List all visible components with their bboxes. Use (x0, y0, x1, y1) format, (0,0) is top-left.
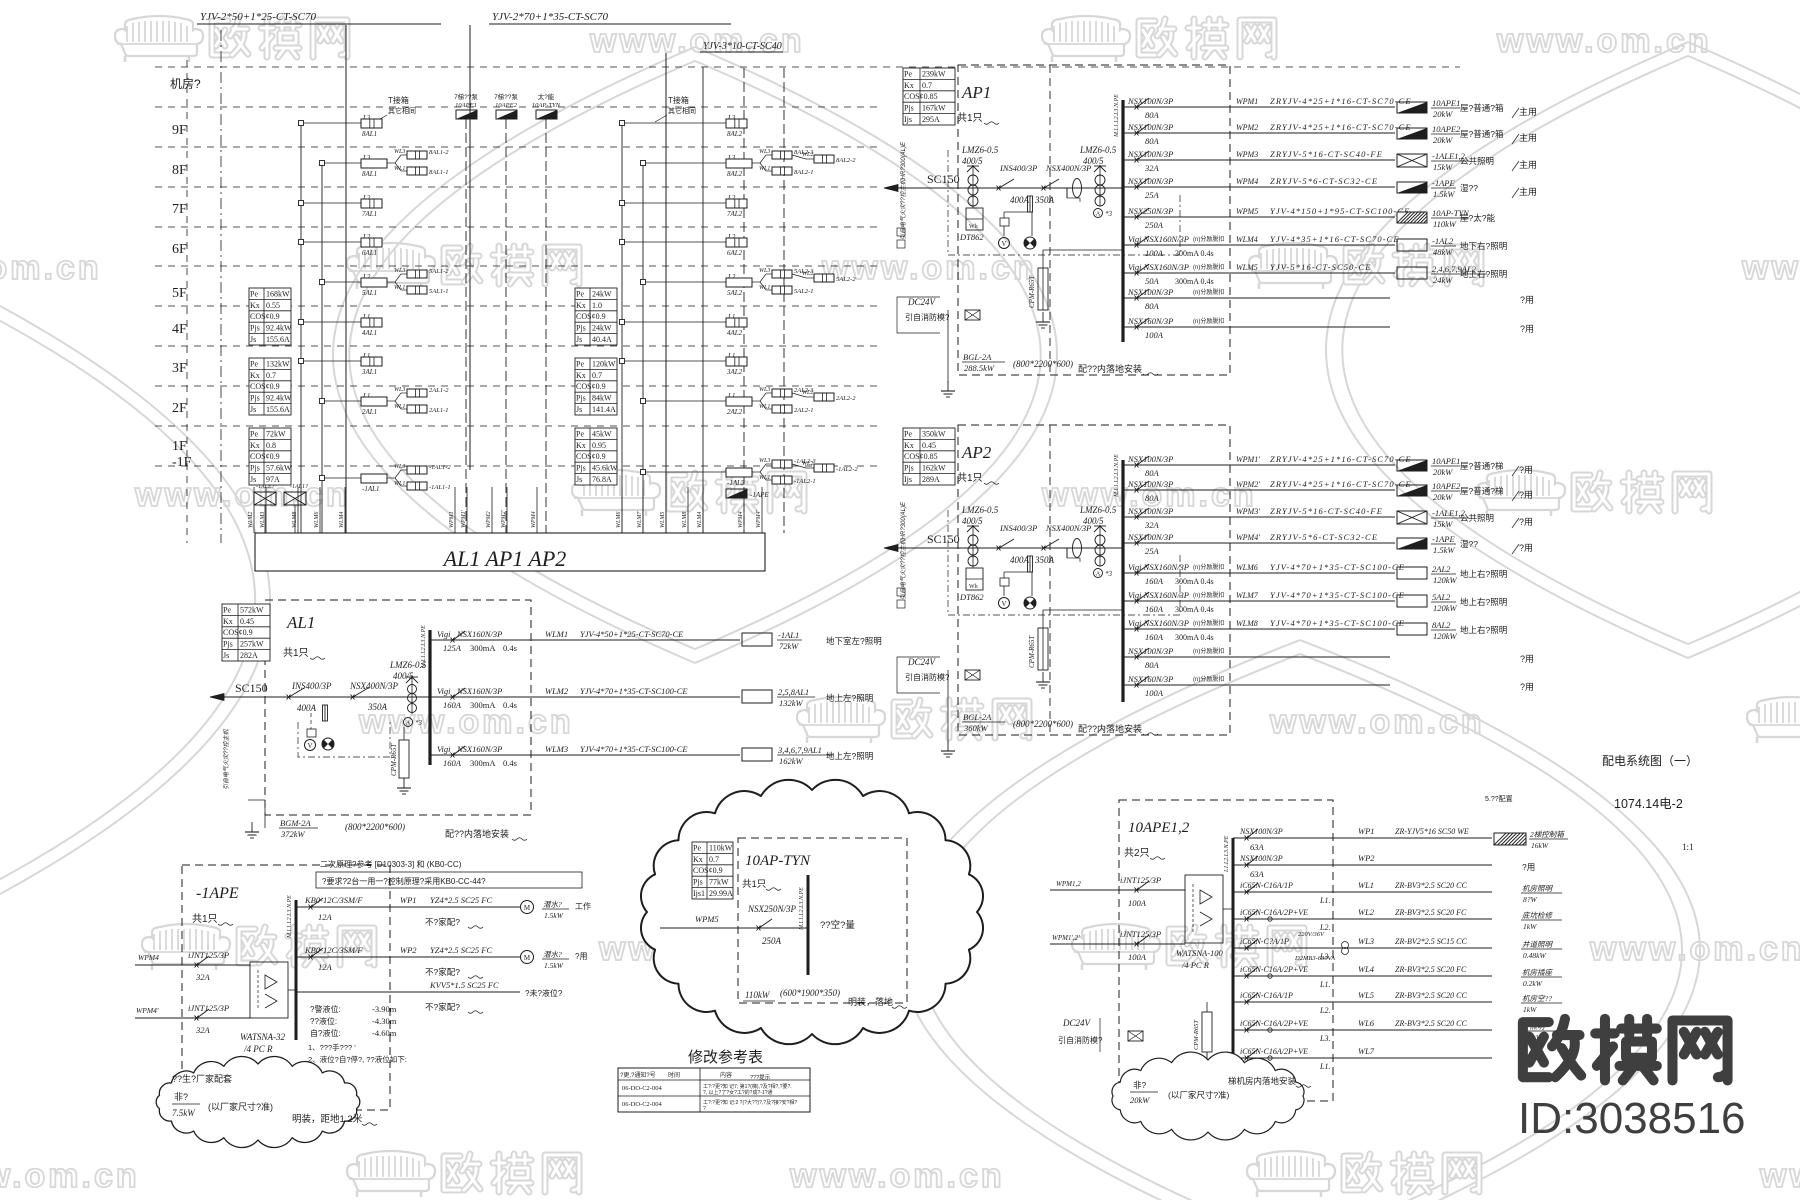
svg-text:(n)分励脱扣: (n)分励脱扣 (1193, 591, 1224, 599)
svg-text:NSX100N/3P: NSX100N/3P (1127, 646, 1173, 656)
svg-text:M.L1.L2.L3.N.PE: M.L1.L2.L3.N.PE (1114, 454, 1120, 498)
svg-text:257kW: 257kW (240, 640, 264, 649)
svg-text:?用: ?用 (1520, 324, 1534, 334)
transfer switch WATSNA-100/4 PC R (1176, 875, 1233, 970)
svg-text:Js: Js (223, 651, 229, 660)
panel 10APE1,2 title (1124, 820, 1190, 859)
svg-text:AP1: AP1 (961, 83, 991, 102)
svg-text:10APE1: 10APE1 (1432, 456, 1460, 466)
floor tap 5AL1 with sub-feeds (320, 268, 450, 297)
svg-text:iJNT125/3P: iJNT125/3P (188, 1003, 229, 1013)
svg-text:BGL-2A: BGL-2A (963, 712, 992, 722)
svg-text:45kW: 45kW (592, 429, 612, 438)
ammeters A*3 (1094, 569, 1113, 579)
svg-text:(n)分励脱扣: (n)分励脱扣 (1193, 235, 1224, 243)
svg-text:共1只: 共1只 (742, 879, 766, 890)
svg-text:350A: 350A (1034, 555, 1055, 565)
svg-text:25A: 25A (1145, 546, 1160, 556)
svg-text:5AL2-2: 5AL2-2 (836, 276, 856, 283)
svg-text:77kW: 77kW (709, 878, 729, 887)
svg-text:Pjs: Pjs (576, 324, 586, 333)
roof unit box 10APE1 (454, 92, 478, 119)
svg-text:ZR-BV3*2.5 SC20 FC: ZR-BV3*2.5 SC20 FC (1395, 908, 1467, 917)
svg-text:不?家配?: 不?家配? (425, 917, 460, 927)
svg-text:8AL1-2: 8AL1-2 (429, 149, 449, 156)
CT LMZ6-0.5 400/5 (bus side) (1079, 145, 1117, 206)
svg-text:DT862: DT862 (959, 592, 984, 602)
panel AP2 main bus (1114, 454, 1123, 702)
load label 底坑检修 (1521, 911, 1562, 931)
svg-text:YJV-2*50+1*25-CT-SC70: YJV-2*50+1*25-CT-SC70 (200, 11, 316, 23)
svg-text:COS¢0.85: COS¢0.85 (904, 452, 938, 461)
svg-text:井道照明: 井道照明 (1522, 940, 1553, 949)
roof unit box 10APE2 (494, 92, 518, 119)
svg-text:0.55: 0.55 (266, 301, 280, 310)
svg-text:32A: 32A (1144, 163, 1160, 173)
svg-text:WATSNA-32: WATSNA-32 (240, 1032, 286, 1042)
svg-text:WPM5: WPM5 (695, 914, 719, 924)
svg-text:YZ4*2.5 SC25 FC: YZ4*2.5 SC25 FC (430, 945, 492, 955)
svg-text:YJV-4*70+1*35-CT-SC100-CE: YJV-4*70+1*35-CT-SC100-CE (1270, 618, 1405, 628)
svg-text:M.L1.L2.L3.N.PE: M.L1.L2.L3.N.PE (799, 887, 805, 931)
svg-text:二次原理?参考 [D10303-3] 和 (KB0-CC): 二次原理?参考 [D10303-3] 和 (KB0-CC) (320, 859, 462, 869)
junction box label T接箱 (375, 95, 416, 122)
svg-text:Kx: Kx (250, 301, 260, 310)
svg-text:5AL2: 5AL2 (1432, 592, 1451, 602)
svg-text:400/5: 400/5 (962, 156, 983, 166)
svg-text:WL1: WL1 (394, 481, 405, 487)
feeder WPM2 NSX100N/3P 80A (1123, 122, 1412, 146)
svg-text:160A: 160A (1145, 604, 1164, 614)
meter cluster AL1 (298, 713, 390, 757)
floor tap 6AL2 (620, 233, 748, 257)
svg-text:-1AL2-2: -1AL2-2 (836, 466, 858, 473)
svg-text:KB0-12C/3SM/F: KB0-12C/3SM/F (304, 895, 363, 905)
panel AP2 parameter table (903, 428, 955, 485)
svg-text:?用: ?用 (1520, 654, 1534, 664)
svg-text:公共照明: 公共照明 (1460, 156, 1494, 166)
CT LMZ6-0.5 400/5 (incoming) (961, 145, 999, 206)
svg-text:M: M (524, 954, 531, 962)
CT LMZ6-0.5 400/5 (bus side) (1079, 505, 1117, 566)
svg-text:CPM-R65T: CPM-R65T (1193, 1020, 1200, 1050)
CT LMZ6-0.5 400/5 (AL1) (389, 660, 427, 727)
svg-text:300mA: 300mA (470, 700, 496, 710)
svg-text:Pe: Pe (250, 429, 258, 438)
svg-text:NSX100N/3P: NSX100N/3P (1127, 149, 1173, 159)
svg-text:400/5: 400/5 (393, 671, 414, 681)
svg-text:WL3: WL3 (394, 387, 405, 393)
svg-text:WL6: WL6 (1358, 1018, 1375, 1028)
svg-text:YJV-5*16-CT-SC50-CE: YJV-5*16-CT-SC50-CE (1270, 262, 1372, 272)
svg-text:2AL2-2: 2AL2-2 (836, 395, 856, 402)
svg-text:06-DO-C2-004: 06-DO-C2-004 (622, 1101, 662, 1108)
svg-text:机房空??: 机房空?? (1522, 994, 1552, 1003)
svg-text:非?: 非? (174, 1091, 188, 1102)
note cloud 厂家配套 (156, 1056, 377, 1147)
svg-text:2AL1: 2AL1 (362, 408, 377, 416)
svg-text:ZR-BV3*2.5 SC20 CC: ZR-BV3*2.5 SC20 CC (1395, 881, 1467, 890)
panel 10AP-TYN enclosure (738, 838, 907, 1003)
motor load 潜水泵 1.5kW 工作 (521, 900, 592, 920)
svg-text:Pe: Pe (576, 359, 584, 368)
svg-text:?, 以上?了?女?工?的?成?-1?通: ?, 以上?了?女?工?的?成?-1?通 (703, 1089, 772, 1096)
svg-text:(800*2200*600): (800*2200*600) (1013, 359, 1073, 369)
ammeters A*3 (1094, 209, 1113, 219)
svg-text:自?液位:: 自?液位: (310, 1028, 341, 1038)
svg-text:YJV-4*35+1*16-CT-SC70-CE: YJV-4*35+1*16-CT-SC70-CE (1270, 234, 1400, 244)
svg-text:Vigi NSX160N/3P: Vigi NSX160N/3P (1128, 618, 1189, 628)
svg-text:M.L1.L2.L3.N.PE: M.L1.L2.L3.N.PE (287, 895, 293, 939)
svg-text:6AL1: 6AL1 (362, 249, 377, 257)
load box 3,4,6,7,9AL1 (742, 745, 873, 766)
svg-text:T接箱: T接箱 (668, 95, 689, 105)
load box -1AL1 (crossed) (254, 484, 308, 533)
svg-text:WLM4: WLM4 (696, 512, 703, 528)
svg-text:Js: Js (250, 335, 256, 344)
svg-text:WATSNA-100: WATSNA-100 (1176, 948, 1224, 958)
svg-text:(以厂家尺寸?准): (以厂家尺寸?准) (208, 1101, 273, 1112)
svg-text:屋?普通?箱: 屋?普通?箱 (1460, 129, 1504, 139)
svg-text:地上右?照明: 地上右?照明 (1460, 597, 1507, 607)
svg-text:372kW: 372kW (280, 829, 306, 839)
svg-text:0.95: 0.95 (592, 441, 606, 450)
svg-text:10APE2: 10APE2 (1432, 124, 1461, 134)
svg-text:WL2: WL2 (802, 152, 813, 158)
panel AP1 ground (941, 310, 955, 397)
panel AP1 enclosure (958, 65, 1230, 375)
svg-text:?用: ?用 (1519, 543, 1533, 553)
svg-text:0.7: 0.7 (592, 371, 602, 380)
svg-text:Pe: Pe (904, 429, 912, 438)
svg-text:屋?普通?梯: 屋?普通?梯 (1460, 486, 1504, 496)
watermark logo 欧模网 (site logo) (1523, 1019, 1728, 1081)
svg-text:潜水?: 潜水? (543, 950, 562, 959)
breaker NSX400N/3P 350A (AL1) (349, 681, 399, 712)
svg-text:(n)分励脱扣: (n)分励脱扣 (1193, 647, 1224, 655)
svg-text:0.8: 0.8 (266, 441, 276, 450)
svg-text:WP2: WP2 (1358, 853, 1375, 863)
svg-text:WPM3': WPM3' (1236, 507, 1260, 516)
breaker NSX400N/3P 350A (1028, 163, 1092, 212)
svg-text:20kW: 20kW (1130, 1095, 1150, 1105)
svg-text:100A: 100A (1145, 688, 1164, 698)
svg-text:Pjs: Pjs (576, 464, 586, 473)
svg-text:WPM1',2': WPM1',2' (1052, 934, 1080, 942)
svg-text:A: A (406, 720, 411, 727)
svg-text:1F: 1F (172, 439, 187, 454)
svg-text:20kW: 20kW (1433, 135, 1453, 145)
svg-text:COS¢0.9: COS¢0.9 (223, 628, 253, 637)
feeder spare NSX100N/3P 80A (1123, 287, 1390, 311)
svg-text:2、液位?自?停?, ??液位如下:: 2、液位?自?停?, ??液位如下: (308, 1054, 407, 1064)
load box 10APE1 (1397, 98, 1537, 119)
svg-text:引自电气火灾??控主机HR?300(AL)E: 引自电气火灾??控主机HR?300(AL)E (899, 501, 907, 600)
svg-text:Pjs: Pjs (576, 394, 586, 403)
svg-text:160A: 160A (1145, 576, 1164, 586)
svg-text:V: V (1001, 240, 1006, 248)
svg-text:YJV-4*150+1*95-CT-SC100-CE: YJV-4*150+1*95-CT-SC100-CE (1270, 206, 1410, 216)
svg-text:LMZ6-0.5: LMZ6-0.5 (961, 505, 999, 515)
svg-text:主用: 主用 (1519, 132, 1537, 143)
svg-text:ID:3038516: ID:3038516 (1518, 1094, 1746, 1143)
shunt trip note (1193, 563, 1224, 571)
svg-text:120kW: 120kW (1433, 575, 1458, 585)
svg-text:2AL2: 2AL2 (727, 408, 743, 416)
svg-text:?警液位:: ?警液位: (310, 1004, 341, 1014)
svg-text:工作: 工作 (575, 901, 591, 911)
svg-text:引自电气火灾??控主机: 引自电气火灾??控主机 (222, 728, 230, 790)
panel AP2 enclosure (958, 425, 1230, 735)
svg-text:0.4s: 0.4s (503, 643, 517, 653)
svg-text:AP2: AP2 (961, 443, 992, 462)
roof unit box 10AP-TYN (532, 92, 561, 119)
svg-text:250A: 250A (1145, 220, 1164, 230)
svg-text:8AL2: 8AL2 (727, 170, 743, 178)
svg-text:主用: 主用 (1519, 159, 1537, 170)
svg-text:8AL1: 8AL1 (362, 170, 377, 178)
svg-text:25A: 25A (1145, 190, 1160, 200)
load label 机房插座 (1521, 968, 1562, 988)
svg-text:0.7: 0.7 (709, 855, 719, 864)
svg-text:机房?: 机房? (170, 76, 201, 91)
svg-text:32A: 32A (1144, 520, 1160, 530)
feeder WL1 iC65N-C16A/1P (1233, 880, 1492, 905)
svg-text:M.L1.L2.L3.N.PE: M.L1.L2.L3.N.PE (1114, 94, 1120, 138)
svg-text:72kW: 72kW (266, 429, 286, 438)
load label 机房空?? (1521, 994, 1562, 1014)
svg-text:360kW: 360kW (963, 723, 989, 733)
svg-text:Pjs: Pjs (693, 878, 703, 887)
svg-text:WL1: WL1 (759, 166, 770, 172)
svg-text:梯机房内落地安装: 梯机房内落地安装 (1228, 1076, 1297, 1086)
incoming wire (958, 547, 1123, 549)
svg-text:7AL1: 7AL1 (362, 210, 377, 218)
svg-text:L2.: L2. (1319, 1006, 1330, 1015)
svg-text:WPM4: WPM4 (138, 953, 159, 962)
svg-text:3F: 3F (172, 361, 187, 376)
svg-text:DC24V: DC24V (907, 657, 937, 667)
svg-text:WLM7: WLM7 (637, 511, 643, 528)
svg-text:162kW: 162kW (779, 756, 804, 766)
svg-text:WLM7: WLM7 (1236, 591, 1259, 600)
transfer switch WATSNA-32/4 PC R (240, 962, 296, 1054)
svg-text:1.5kW: 1.5kW (1433, 189, 1455, 199)
svg-text:工?:?更?知 记:2 ?(?大??)?,?及?接?安?相?: 工?:?更?知 记:2 ?(?大??)?,?及?接?安?相? (703, 1099, 797, 1106)
svg-text:WL7: WL7 (1358, 1046, 1375, 1056)
svg-text:INS400/3P: INS400/3P (999, 523, 1037, 533)
svg-text:(n)分励脱扣: (n)分励脱扣 (1193, 619, 1224, 627)
svg-text:COS¢0.9: COS¢0.9 (250, 382, 280, 391)
svg-text:WPM4: WPM4 (1236, 177, 1258, 186)
svg-text:?更,?通知?号: ?更,?通知?号 (620, 1071, 656, 1079)
svg-text:24kW: 24kW (592, 289, 612, 298)
svg-text:iC65N-C16A/2P+VE: iC65N-C16A/2P+VE (1240, 965, 1308, 974)
svg-text:明装，落地: 明装，落地 (848, 996, 893, 1007)
svg-text:6AL2: 6AL2 (727, 249, 743, 257)
svg-text:WPM2': WPM2' (1236, 480, 1260, 489)
svg-text:NSX100N/3P: NSX100N/3P (1127, 96, 1173, 106)
panel feeder stubs into busbox (248, 487, 762, 533)
feeder WPM3' NSX100N/3P 32A (1123, 506, 1395, 530)
svg-text:Kx: Kx (250, 371, 260, 380)
riser load parameter table (249, 358, 292, 415)
svg-text:80A: 80A (1145, 493, 1160, 503)
svg-text:-4.60m: -4.60m (372, 1028, 397, 1038)
svg-text:-1AL1-1: -1AL1-1 (429, 484, 451, 491)
svg-text:M: M (524, 904, 531, 912)
feeder WLM8 Vigi NSX160N/3P 160A (1123, 618, 1405, 642)
svg-text:50A: 50A (1145, 276, 1160, 286)
svg-text:?用: ?用 (1519, 517, 1533, 527)
svg-text:YJV-4*70+1*35-CT-SC100-CE: YJV-4*70+1*35-CT-SC100-CE (580, 686, 688, 696)
svg-text:YJV-4*70+1*35-CT-SC100-CE: YJV-4*70+1*35-CT-SC100-CE (580, 744, 688, 754)
svg-text:WPM4: WPM4 (530, 511, 537, 528)
load box 8AL2 (1397, 620, 1507, 641)
panel AP1 cabinet label (962, 352, 1158, 375)
svg-text:10APE2: 10APE2 (1432, 481, 1461, 491)
incoming wire (958, 187, 1123, 189)
svg-text:WPM1: WPM1 (449, 511, 455, 528)
svg-text:400/5: 400/5 (1083, 156, 1104, 166)
svg-text:?: ? (703, 1106, 706, 1112)
load box 10AP-TYN (1397, 208, 1495, 229)
svg-text:-1APE: -1APE (1432, 178, 1455, 188)
svg-text:1:1: 1:1 (1682, 842, 1694, 852)
svg-text:239kW: 239kW (922, 69, 946, 78)
svg-text:A: A (1096, 571, 1101, 578)
svg-text:屋?太?能: 屋?太?能 (1460, 213, 1495, 223)
svg-text:LMZ6-0.5: LMZ6-0.5 (961, 145, 999, 155)
riser load parameter table (249, 288, 292, 345)
svg-text:-1AL2: -1AL2 (727, 479, 745, 487)
svg-text:WL2: WL2 (802, 461, 813, 467)
svg-text:63A: 63A (1250, 869, 1265, 879)
svg-text:572kW: 572kW (240, 605, 264, 614)
svg-text:8AL1: 8AL1 (362, 130, 377, 138)
solar unit label (820, 919, 855, 931)
spare wires AP2 (1123, 657, 1390, 685)
svg-text:DC24V: DC24V (907, 297, 937, 307)
svg-text:配??内落地安装: 配??内落地安装 (445, 828, 509, 839)
surge protector CPM-R65T (AL1) (390, 727, 411, 794)
secondary control note (316, 859, 582, 888)
svg-text:-1F: -1F (172, 455, 192, 470)
supply node SC150 (AL1) (210, 681, 268, 790)
svg-text:110kW: 110kW (745, 990, 771, 1000)
svg-text:DC24V: DC24V (1062, 1018, 1092, 1028)
svg-text:-1APE: -1APE (196, 885, 239, 902)
floor tap 4AL1 (299, 313, 383, 337)
svg-text:10APE1,2: 10APE1,2 (1128, 820, 1190, 836)
svg-text:Vigi NSX160N/3P: Vigi NSX160N/3P (1128, 234, 1189, 244)
energy meter DT862 cluster (948, 150, 1180, 255)
svg-text:5.??配置: 5.??配置 (1485, 795, 1513, 803)
load box -1APE (1397, 178, 1537, 199)
svg-text:120kW: 120kW (592, 359, 616, 368)
svg-text:ZR-BV2*2.5 SC15 CC: ZR-BV2*2.5 SC15 CC (1395, 937, 1467, 946)
svg-text:共1只: 共1只 (192, 913, 218, 925)
junction box label T接箱 (655, 95, 696, 122)
svg-text:T接箱: T接箱 (388, 95, 409, 105)
svg-text:100A: 100A (1145, 330, 1164, 340)
svg-text:WL2: WL2 (802, 390, 813, 396)
svg-text:Vigi NSX160N/3P: Vigi NSX160N/3P (1128, 562, 1189, 572)
svg-text:10AP-TYN: 10AP-TYN (532, 102, 561, 109)
spare feeder label (1520, 295, 1534, 305)
svg-text:CPM-R65T: CPM-R65T (390, 743, 398, 776)
svg-text:7.5kW: 7.5kW (172, 1108, 196, 1118)
svg-text:8AL2-1: 8AL2-1 (794, 169, 814, 176)
riser cable label YJV-2*70+1*35-CT-SC70 (489, 11, 731, 24)
svg-text:/4 PC R: /4 PC R (243, 1044, 273, 1054)
svg-text:?未?液位?: ?未?液位? (525, 988, 563, 998)
svg-text:ZRYJV-4*25+1*16-CT-SC70-CE: ZRYJV-4*25+1*16-CT-SC70-CE (1270, 479, 1412, 489)
svg-text:NSX160N/3P: NSX160N/3P (456, 686, 502, 696)
feeder WL2 iC65N-C16A/2P+VE (1233, 907, 1492, 932)
svg-text:-1APE: -1APE (1432, 534, 1455, 544)
svg-text:DT862: DT862 (959, 232, 984, 242)
svg-text:WL3: WL3 (394, 268, 405, 274)
shunt trip note (1193, 675, 1224, 683)
svg-text:2AL2: 2AL2 (1432, 564, 1451, 574)
svg-text:24kW: 24kW (1433, 275, 1453, 285)
svg-text:NSX250N/3P: NSX250N/3P (747, 904, 797, 914)
svg-text:?用: ?用 (1519, 465, 1533, 475)
svg-text:4AL1: 4AL1 (362, 329, 377, 337)
svg-text:(n)分励脱扣: (n)分励脱扣 (1193, 563, 1224, 571)
floor tap 8AL1 (299, 114, 383, 138)
svg-text:WLM4: WLM4 (1236, 235, 1258, 244)
svg-text:120kW: 120kW (1433, 631, 1458, 641)
svg-text:300mA 0.4s: 300mA 0.4s (1175, 277, 1214, 286)
svg-text:COS¢0.9: COS¢0.9 (693, 866, 723, 875)
svg-text:Pjs: Pjs (904, 104, 914, 113)
svg-text:5AL1: 5AL1 (362, 289, 377, 297)
svg-text:ZRYJV-4*25+1*16-CT-SC70-CE: ZRYJV-4*25+1*16-CT-SC70-CE (1270, 96, 1412, 106)
svg-text:3AL1: 3AL1 (361, 368, 377, 376)
svg-text:iC65N-C16A/2P+VE: iC65N-C16A/2P+VE (1240, 1019, 1308, 1028)
load box -1AL2 (1397, 236, 1507, 257)
svg-text:NSX100N/3P: NSX100N/3P (1127, 122, 1173, 132)
svg-text:CPM-R65T: CPM-R65T (1028, 275, 1036, 308)
watermark ID:3038516 (1518, 1094, 1746, 1143)
panel 10APE1,2 enclosure (1119, 800, 1333, 1101)
svg-text:ZRYJV-4*25+1*16-CT-SC70-CE: ZRYJV-4*25+1*16-CT-SC70-CE (1270, 122, 1412, 132)
svg-text:15kW: 15kW (1433, 519, 1453, 529)
shunt trip note (1193, 619, 1224, 627)
feeder WPM1' NSX100N/3P 80A (1123, 454, 1412, 478)
feeder WPM5 NSX250N/3P 250A (1123, 206, 1410, 230)
svg-text:92.4kW: 92.4kW (266, 394, 292, 403)
svg-text:WPM1,2: WPM1,2 (1056, 880, 1081, 888)
riser cable label YJV-2*50+1*25-CT-SC70 (197, 11, 441, 24)
svg-text:(800*2200*600): (800*2200*600) (345, 822, 405, 832)
panel 10AP-TYN title (742, 853, 811, 890)
svg-text:72kW: 72kW (779, 641, 799, 651)
svg-text:A: A (1096, 211, 1101, 218)
svg-text:主用: 主用 (1519, 106, 1537, 117)
revision reference table (618, 1049, 810, 1112)
svg-text:ZRYJV-5*16-CT-SC40-FE: ZRYJV-5*16-CT-SC40-FE (1270, 506, 1383, 516)
svg-text:NSX400N/3P: NSX400N/3P (349, 681, 399, 691)
load box -1APE (1397, 534, 1533, 555)
floor tap 6AL1 (299, 233, 383, 257)
svg-text:WL3: WL3 (759, 387, 770, 393)
CT LMZ6-0.5 400/5 (incoming) (961, 505, 999, 566)
svg-text:80A: 80A (1145, 660, 1160, 670)
svg-text:7AL2: 7AL2 (727, 210, 743, 218)
